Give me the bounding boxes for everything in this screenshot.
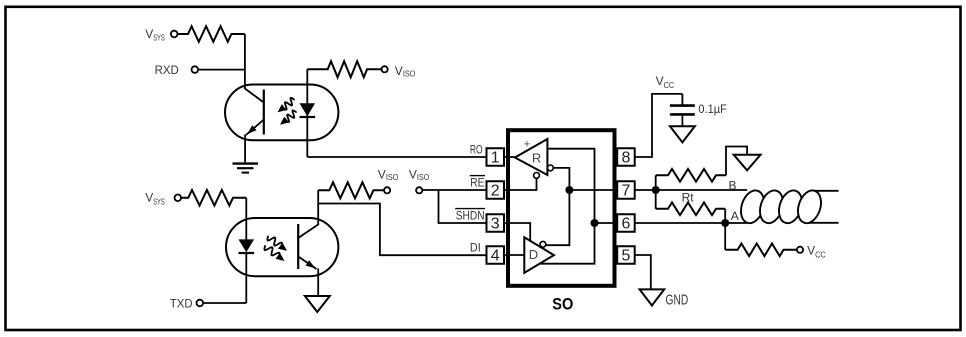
ground GND at pin 5 (640, 289, 689, 308)
resistor B fail-safe pull-down (656, 147, 747, 191)
wire VISO to RE pin 2 (422, 189, 486, 191)
label SO package (552, 295, 573, 313)
optocoupler U2 body (bottom) (226, 218, 338, 276)
resistor A pull-up to VCC (725, 223, 797, 256)
junction B net internal (565, 186, 573, 194)
svg-text:RXD: RXD (155, 63, 179, 77)
phototransistor Q2 (bottom opto) (298, 190, 318, 296)
D inverting output bubble (540, 241, 546, 247)
svg-text:7: 7 (621, 183, 630, 200)
svg-text:3: 3 (491, 216, 500, 233)
svg-text:SO: SO (552, 295, 573, 313)
label A (731, 209, 739, 223)
node TXD (170, 296, 203, 310)
svg-text:DI: DI (470, 241, 481, 255)
node VISO (DI pull-up) (378, 167, 399, 193)
wire R+ input to A net (547, 149, 594, 223)
wire pin1 to R output (504, 156, 515, 158)
svg-text:GND: GND (666, 292, 689, 308)
pin 1 box (487, 148, 505, 166)
pin 7 box (617, 181, 635, 199)
svg-text:+: + (524, 138, 530, 150)
pin 5 box (617, 246, 635, 264)
resistor RO pull-up to VISO (307, 61, 381, 77)
wire VSYS resistor to opto collector (244, 34, 246, 89)
wire RO line from opto to pin 1 (307, 156, 486, 158)
label B (729, 179, 737, 193)
label SHDN-bar pin 3 (455, 209, 485, 223)
pin 3 box (487, 214, 505, 232)
node VCC (top) (656, 74, 675, 90)
svg-text:SHDN: SHDN (456, 209, 485, 223)
wire VSYS resistor to LED anode (245, 198, 247, 240)
junction A net internal (591, 219, 599, 227)
label RO pin 1 (470, 143, 483, 157)
svg-text:TXD: TXD (170, 296, 193, 310)
wire TXD to LED cathode (203, 302, 246, 304)
wire D output to A net (539, 223, 595, 264)
wire Q2 collector to DI pin (318, 204, 486, 256)
svg-text:6: 6 (621, 216, 630, 233)
ground (isolated) at C1 (670, 126, 695, 142)
driver D inside IC (524, 237, 554, 273)
pin 6 box (617, 214, 635, 232)
junction B line (652, 186, 660, 194)
svg-text:5: 5 (621, 248, 630, 265)
pin 2 box (487, 181, 505, 199)
pin 8 box (617, 148, 635, 166)
wire pin2 RE to R enable (504, 178, 537, 190)
label Rt (682, 190, 695, 204)
svg-text:R: R (532, 151, 541, 166)
receiver R inside IC (515, 138, 548, 175)
capacitor C1 0.1uF (670, 94, 727, 126)
node VSYS (bottom) (145, 191, 181, 207)
junction A line (721, 219, 729, 227)
wire pin 8 to VCC (635, 94, 683, 157)
node VCC (A pull-up) (797, 244, 826, 260)
svg-text:B: B (729, 179, 737, 193)
node VSYS (top) (145, 27, 177, 43)
label RE-bar pin 2 (470, 176, 485, 190)
wire A net to pin 6 (595, 222, 618, 224)
wire R- input to B net (553, 168, 569, 190)
svg-text:4: 4 (491, 248, 500, 265)
wire RXD to collector (198, 69, 245, 71)
IC U3 transceiver body (508, 130, 615, 286)
wire A line pin 6 to cable (635, 222, 747, 224)
svg-text:A: A (731, 209, 739, 223)
svg-text:0.1µF: 0.1µF (698, 102, 727, 116)
wire D inverting output to B net (546, 190, 570, 245)
wire branch to SHDN pin 3 (439, 190, 487, 223)
light arrows into Q2 (264, 237, 287, 262)
R enable bubble (534, 173, 540, 179)
resistor DI pull-up to VISO (318, 182, 384, 198)
svg-text:RE: RE (470, 176, 484, 190)
wire B line pin 7 to cable (635, 189, 747, 191)
R inverting input bubble (548, 165, 554, 171)
node VISO (top) (382, 64, 416, 79)
svg-text:8: 8 (621, 150, 630, 167)
phototransistor Q1 (top opto) (245, 89, 264, 164)
LED D1 (top opto) (300, 69, 316, 157)
twisted pair cable (737, 187, 838, 226)
wire B net to pin 7 (569, 189, 617, 191)
light arrows into Q1 (278, 98, 297, 125)
svg-text:1: 1 (491, 150, 500, 167)
node RXD (155, 63, 199, 77)
wire pin3 SHDN to D enable (504, 223, 530, 241)
svg-text:Rt: Rt (682, 190, 695, 204)
ground (logic) at Q1 emitter (233, 164, 259, 173)
resistor Rt termination (656, 190, 726, 223)
LED D2 (bottom opto) (239, 239, 255, 303)
optocoupler U1 body (top) (225, 85, 338, 141)
wire pin 5 to GND (635, 255, 651, 289)
label DI pin 4 (470, 241, 481, 255)
resistor TXD LED series (VSYS) (181, 190, 246, 206)
pin 4 box (487, 246, 505, 264)
resistor RXD pull-up (VSYS) (178, 26, 245, 42)
ground (isolated) at B fail-safe (734, 155, 761, 171)
ground (isolated) at Q2 emitter (305, 296, 330, 312)
svg-text:D: D (529, 247, 538, 262)
wire pin4 DI to D input (504, 254, 524, 256)
svg-text:RO: RO (470, 143, 483, 157)
svg-text:2: 2 (491, 183, 500, 200)
node VISO (RE/SHDN pull-up) (409, 167, 430, 193)
